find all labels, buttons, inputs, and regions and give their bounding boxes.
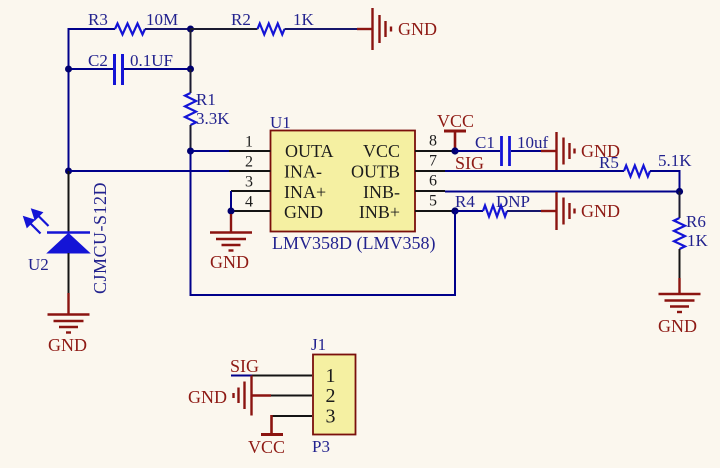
pin 2: [229, 170, 271, 172]
resistor R1: [185, 93, 196, 125]
wire node A down to C2 node: [190, 29, 192, 69]
wire R2 to GND stub: [285, 28, 359, 30]
svg-text:10uf: 10uf: [517, 133, 549, 152]
wire node C to R6: [679, 192, 681, 219]
svg-text:7: 7: [429, 153, 437, 170]
svg-text:R2: R2: [231, 10, 251, 29]
svg-text:U1: U1: [270, 113, 291, 132]
svg-text:VCC: VCC: [437, 111, 474, 131]
resistor R6: [674, 218, 685, 249]
svg-text:GND: GND: [398, 19, 437, 39]
svg-text:GND: GND: [210, 252, 249, 272]
svg-text:1: 1: [245, 134, 253, 151]
svg-text:VCC: VCC: [363, 141, 400, 161]
svg-text:4: 4: [245, 194, 253, 211]
svg-text:INA+: INA+: [284, 182, 326, 202]
ground GND (below U1): [210, 214, 252, 251]
svg-text:R4: R4: [455, 192, 475, 211]
svg-text:C2: C2: [88, 51, 108, 70]
pin 2 (J1): [270, 395, 312, 397]
pin 8: [415, 150, 455, 152]
svg-text:2: 2: [245, 154, 253, 171]
wire C2 node left: [69, 68, 114, 70]
pin 3: [231, 190, 271, 192]
wire R3 to node A: [145, 28, 191, 30]
svg-text:0.1UF: 0.1UF: [130, 51, 173, 70]
photodiode U2 cathode bar: [47, 231, 90, 234]
wire pin6 to node C: [445, 191, 680, 193]
junction pin5: [451, 207, 458, 214]
resistor R3: [115, 24, 145, 35]
svg-text:GND: GND: [48, 335, 87, 355]
resistor R2: [258, 24, 285, 35]
node A junction: [187, 26, 194, 33]
svg-text:10M: 10M: [146, 10, 178, 29]
photodiode U2 light arrow 2: [32, 209, 49, 226]
ground GND (right of R4, sideways): [541, 192, 575, 230]
pin 1 (J1): [252, 375, 312, 377]
power VCC (top): [444, 131, 466, 148]
photodiode U2 light arrow 1: [24, 217, 41, 234]
connector J1 body: [313, 355, 356, 435]
svg-text:INA-: INA-: [284, 162, 322, 182]
junction pin8/VCC: [451, 147, 458, 154]
resistor R4: [483, 206, 507, 217]
pin 7: [415, 170, 445, 172]
wire pin7 to R5: [445, 170, 624, 172]
svg-text:J1: J1: [311, 335, 326, 354]
wire SIG to pin1: [231, 375, 252, 377]
wire C2 right: [124, 68, 191, 70]
junction C2 right node B: [187, 66, 194, 73]
svg-text:INB-: INB-: [363, 182, 400, 202]
wire pin2 to left vertical: [69, 170, 230, 172]
ground GND (bottom left): [48, 293, 90, 333]
photodiode U2 anode triangle: [48, 234, 90, 254]
svg-text:INB+: INB+: [359, 202, 400, 222]
wire node A to R2: [191, 28, 258, 30]
svg-text:DNP: DNP: [496, 192, 530, 211]
pin 5: [415, 210, 455, 212]
pin 6: [415, 190, 445, 192]
capacitor C1: [502, 136, 510, 166]
wire R1 to pin1 node: [190, 125, 192, 151]
photodiode U2 pin top: [68, 171, 70, 233]
wire pin5 to R4: [455, 210, 483, 212]
junction pin3/pin4: [228, 208, 235, 215]
svg-text:1K: 1K: [293, 10, 315, 29]
ground GND (J1, sideways left): [234, 376, 272, 416]
wire R4 to GND: [507, 210, 542, 212]
ground GND (right of C1, sideways): [541, 132, 575, 170]
svg-text:GND: GND: [658, 316, 697, 336]
svg-text:OUTA: OUTA: [285, 141, 334, 161]
wire pin3 down to pin4: [230, 191, 232, 211]
svg-text:3: 3: [326, 406, 336, 428]
pin 1: [229, 150, 271, 152]
svg-text:5.1K: 5.1K: [658, 151, 692, 170]
svg-text:6: 6: [429, 173, 437, 190]
svg-text:LMV358D (LMV358): LMV358D (LMV358): [272, 233, 436, 254]
ground GND (top, sideways): [357, 8, 391, 50]
pin 3 (J1): [271, 415, 313, 417]
svg-text:3.3K: 3.3K: [196, 109, 230, 128]
node C junction: [676, 188, 683, 195]
svg-text:GND: GND: [284, 202, 323, 222]
svg-text:1: 1: [326, 365, 336, 387]
photodiode U2 pin bottom: [68, 253, 70, 294]
power VCC (J1, pointing down): [261, 415, 283, 435]
wire node B to R1: [190, 69, 192, 93]
svg-text:CJMCU-S12D: CJMCU-S12D: [90, 182, 110, 294]
svg-text:R1: R1: [196, 90, 216, 109]
capacitor C2: [115, 54, 123, 85]
wire top rail left segment: [69, 29, 116, 171]
svg-text:1K: 1K: [687, 231, 709, 250]
node OUTA junction: [187, 148, 194, 155]
svg-text:R5: R5: [599, 153, 619, 172]
wire left vertical to diode node: [65, 168, 72, 175]
svg-text:8: 8: [429, 133, 437, 150]
svg-text:GND: GND: [188, 387, 227, 407]
svg-text:2: 2: [326, 385, 336, 407]
pin 4: [231, 210, 271, 212]
svg-text:3: 3: [245, 174, 253, 191]
svg-text:GND: GND: [581, 201, 620, 221]
svg-text:P3: P3: [312, 437, 330, 456]
wire feedback OUTA to INB+: [191, 151, 456, 295]
svg-text:R3: R3: [88, 10, 108, 29]
ground GND (bottom right): [659, 278, 701, 312]
wire C1 to GND: [511, 150, 542, 152]
wire pin1 to node OUTA: [191, 150, 230, 152]
op-amp U1 body: [271, 131, 416, 232]
junction C2 left: [65, 66, 72, 73]
svg-text:OUTB: OUTB: [351, 162, 400, 182]
svg-text:C1: C1: [475, 133, 495, 152]
wire R6 to GND: [679, 249, 681, 279]
resistor R5: [624, 166, 650, 177]
svg-text:U2: U2: [28, 255, 49, 274]
wire R5 to node C: [650, 171, 680, 192]
wire pin8 to C1: [455, 150, 500, 152]
svg-text:5: 5: [429, 193, 437, 210]
svg-text:SIG: SIG: [230, 356, 259, 376]
svg-text:VCC: VCC: [248, 437, 285, 457]
svg-text:R6: R6: [686, 212, 706, 231]
